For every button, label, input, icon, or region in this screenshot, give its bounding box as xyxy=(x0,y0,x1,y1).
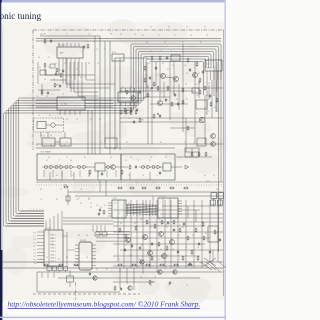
IF specks2 xyxy=(56,175,158,177)
svg-text:F9: F9 xyxy=(110,157,112,159)
BR extra parts2 xyxy=(125,222,211,254)
label cluster R701 xyxy=(40,34,44,36)
svg-text:K4: K4 xyxy=(110,34,112,36)
IC U703 block xyxy=(57,97,85,110)
svg-text:T8: T8 xyxy=(53,79,55,81)
memory box B xyxy=(211,193,224,207)
IC U704 pins xyxy=(121,88,135,106)
svg-text:F1: F1 xyxy=(90,203,92,205)
right half rail y88 xyxy=(120,87,223,89)
svg-text:T1: T1 xyxy=(66,44,68,46)
svg-text:C8: C8 xyxy=(62,94,64,96)
svg-text:L2: L2 xyxy=(172,93,174,95)
TL loop box xyxy=(40,70,46,75)
svg-text:K6: K6 xyxy=(214,107,216,109)
svg-text:L7: L7 xyxy=(178,235,180,237)
capacitor C720 xyxy=(135,165,137,169)
IC right feeds xyxy=(96,232,130,242)
TL box x50 xyxy=(50,64,55,68)
svg-text:R4: R4 xyxy=(130,255,132,257)
svg-text:T7: T7 xyxy=(58,160,60,162)
TL specks4 xyxy=(39,63,86,79)
mid cluster parts xyxy=(153,114,161,119)
TR extra vert c xyxy=(178,84,180,110)
svg-text:K5: K5 xyxy=(136,182,138,184)
resistor R803 xyxy=(154,224,156,229)
svg-text:R3: R3 xyxy=(162,63,164,65)
TR specks3 xyxy=(145,75,219,113)
TR vert x164 xyxy=(163,82,165,98)
svg-text:R6: R6 xyxy=(166,255,168,257)
rail y128 right xyxy=(170,127,195,129)
svg-text:K7: K7 xyxy=(200,42,202,44)
svg-text:R9: R9 xyxy=(86,41,88,43)
bottom rail 4 xyxy=(58,277,200,279)
row parts xyxy=(117,187,188,189)
TR chain x158 parts xyxy=(155,66,159,90)
svg-text:C1: C1 xyxy=(196,113,198,115)
wire drop x100 xyxy=(99,36,101,154)
svg-text:C3: C3 xyxy=(152,182,154,184)
capacitor C737 xyxy=(209,94,211,98)
svg-text:C9: C9 xyxy=(150,27,152,29)
left margin scan shadow xyxy=(2,25,4,302)
cluster boxes right of M2 xyxy=(93,225,107,236)
svg-text:T9: T9 xyxy=(64,63,66,65)
capacitor C801 xyxy=(124,248,126,252)
pad boxes row xyxy=(47,267,68,271)
IF chain wires 2 xyxy=(139,166,182,168)
svg-text:C2: C2 xyxy=(52,94,54,96)
svg-text:K9: K9 xyxy=(120,34,122,36)
svg-text:T7: T7 xyxy=(150,227,152,229)
pad drops xyxy=(49,271,66,273)
vert x205 xyxy=(204,95,206,144)
svg-text:T5: T5 xyxy=(60,189,62,191)
svg-text:onic tuning: onic tuning xyxy=(0,11,42,21)
transistor Q801 xyxy=(126,238,131,243)
dashed delay enclosure xyxy=(34,118,64,132)
IF module enclosure right xyxy=(121,154,175,180)
transistor Q701 xyxy=(111,165,116,170)
dash-dot vertical x75 xyxy=(75,282,77,300)
block B2 bottom xyxy=(60,138,71,146)
svg-text:L6: L6 xyxy=(178,259,180,261)
transistor Q904 xyxy=(128,286,132,290)
IC M2 rounded block xyxy=(79,242,92,270)
BR specks3 xyxy=(118,213,217,249)
svg-text:K8: K8 xyxy=(76,259,78,261)
TR vert x214 xyxy=(213,66,215,96)
ribbon bundle ticks xyxy=(128,204,156,216)
wrap bus line 4 xyxy=(11,52,214,219)
svg-text:T7: T7 xyxy=(208,111,210,113)
delay circle part xyxy=(46,123,64,127)
ribbon bundle xyxy=(126,204,158,215)
svg-text:P6: P6 xyxy=(34,249,36,251)
TL part x56 xyxy=(55,72,62,77)
svg-text:F1: F1 xyxy=(37,96,39,98)
rail y118 right xyxy=(120,117,223,119)
wires drop from delay xyxy=(41,132,65,138)
row rail 1 xyxy=(68,191,223,193)
BR rail y256 xyxy=(113,255,200,257)
svg-text:L2: L2 xyxy=(217,111,219,113)
TR extra vert d xyxy=(198,80,200,98)
svg-text:5: 5 xyxy=(33,209,34,211)
svg-text:F2: F2 xyxy=(80,203,82,205)
TR rail y97 xyxy=(144,96,170,98)
svg-text:K6: K6 xyxy=(38,57,40,59)
TR extra vert b xyxy=(173,62,175,95)
svg-text:R4: R4 xyxy=(192,235,194,237)
capacitor C802 xyxy=(139,246,141,250)
U701 bottom drops xyxy=(63,62,79,92)
node rail y80 xyxy=(50,79,66,81)
svg-text:F1: F1 xyxy=(204,27,206,29)
nested corner trace E xyxy=(82,62,98,100)
wrap bus line 8 xyxy=(150,62,204,96)
wire drop x105 xyxy=(104,41,106,144)
svg-text:R9: R9 xyxy=(160,51,162,53)
speck labels RU xyxy=(150,51,197,91)
svg-text:L4: L4 xyxy=(184,65,186,67)
page right border xyxy=(224,0,226,320)
resistor R805 xyxy=(187,236,189,241)
BR rail y222 xyxy=(113,221,223,223)
svg-text:T7: T7 xyxy=(166,227,168,229)
svg-text:R8: R8 xyxy=(182,227,184,229)
svg-text:L2: L2 xyxy=(215,233,217,235)
cap C1101 xyxy=(89,272,91,276)
bus rail top B xyxy=(36,40,221,42)
resistor R801 xyxy=(119,228,121,233)
row y182 specks xyxy=(40,189,82,201)
page top border strip xyxy=(0,0,226,2)
component cluster below IC xyxy=(56,68,64,73)
enclosure vline B xyxy=(119,58,121,150)
capacitor C731 xyxy=(166,56,168,60)
wire drop x88 mid xyxy=(87,110,89,154)
svg-text:5: 5 xyxy=(39,209,40,211)
amp A7 xyxy=(185,165,189,169)
resistor R720 xyxy=(129,165,131,170)
nested corner trace C xyxy=(74,62,98,92)
crystal X1101 xyxy=(67,270,74,287)
svg-text:T9: T9 xyxy=(204,107,206,109)
svg-text:T4: T4 xyxy=(176,99,178,101)
svg-text:F4: F4 xyxy=(179,157,181,159)
svg-text:P9: P9 xyxy=(34,260,36,262)
nested corner trace A xyxy=(66,58,98,84)
row rail 2 xyxy=(75,195,223,197)
svg-text:TUNER: TUNER xyxy=(206,68,213,70)
IC M2 pins xyxy=(75,245,96,265)
bottom specks2 xyxy=(46,257,188,287)
rail y145 specks xyxy=(42,142,186,144)
memory box A xyxy=(211,193,217,207)
svg-text:R3: R3 xyxy=(58,70,60,72)
BR rail y250 xyxy=(120,249,223,251)
IF inner stubs xyxy=(44,170,116,177)
svg-text:T3: T3 xyxy=(186,27,188,29)
svg-text:F1: F1 xyxy=(46,257,48,259)
BL cluster above IC xyxy=(96,205,106,216)
mid cluster parts2 xyxy=(133,118,144,124)
bottom rail 2 xyxy=(3,267,223,269)
svg-text:C9: C9 xyxy=(84,77,86,79)
TR extra vert a xyxy=(146,62,148,88)
svg-text:R6: R6 xyxy=(88,63,90,65)
svg-text:T3: T3 xyxy=(186,99,188,101)
svg-text:R6: R6 xyxy=(55,63,57,65)
wrap bus line 7 xyxy=(19,59,207,211)
svg-text:C8: C8 xyxy=(88,199,90,201)
amp A2 xyxy=(60,165,64,169)
svg-text:R8: R8 xyxy=(44,79,46,81)
svg-text:T9: T9 xyxy=(150,157,152,159)
svg-text:R6: R6 xyxy=(93,41,95,43)
svg-text:T6: T6 xyxy=(196,95,198,97)
TL specks3 xyxy=(38,49,106,81)
BR rail y238 xyxy=(118,237,210,239)
pin table box xyxy=(185,148,199,157)
resistor R802 xyxy=(135,226,137,231)
test point marks xyxy=(151,87,159,115)
svg-text:T701 IF AMP: T701 IF AMP xyxy=(40,151,52,154)
BR rail y232 xyxy=(113,231,223,233)
caption underline xyxy=(8,308,201,310)
svg-text:R9: R9 xyxy=(125,160,127,162)
svg-text:T6: T6 xyxy=(100,207,102,209)
svg-text:T9: T9 xyxy=(76,69,78,71)
TR specks2 xyxy=(148,63,216,109)
svg-text:F7: F7 xyxy=(205,113,207,115)
top specks row TR xyxy=(142,35,208,44)
svg-text:C9: C9 xyxy=(36,145,38,147)
svg-text:IC1102: IC1102 xyxy=(80,240,86,242)
resistor R742 xyxy=(191,152,193,157)
rails right of IC M1 xyxy=(63,218,113,224)
svg-text:C3: C3 xyxy=(148,63,150,65)
right vertical bridge xyxy=(220,115,222,182)
svg-text:F8: F8 xyxy=(78,235,80,237)
nested corner trace D xyxy=(78,62,98,96)
svg-text:R4: R4 xyxy=(150,89,152,91)
bottom comp row xyxy=(43,264,192,266)
bottom slant extra xyxy=(210,262,220,272)
filter block xyxy=(95,163,105,171)
small cluster x88 xyxy=(83,44,89,49)
transistor Q703 xyxy=(174,77,179,82)
enclosure vline A xyxy=(114,58,116,150)
transistor Q1101 xyxy=(93,276,97,280)
delay line block xyxy=(37,122,46,129)
transistor Q803 xyxy=(159,232,164,237)
page bottom border line xyxy=(0,317,226,319)
diode D1102 box xyxy=(66,196,70,201)
IC M1 inner text xyxy=(50,238,55,246)
svg-text:F3: F3 xyxy=(198,73,200,75)
svg-text:R3: R3 xyxy=(216,189,218,191)
resistor R702 xyxy=(44,63,46,68)
transistor Q901 xyxy=(140,260,144,264)
amp A1 xyxy=(50,165,54,169)
TR extra vert e xyxy=(216,62,218,92)
IC U701 pins xyxy=(59,43,79,62)
resistor R744 xyxy=(205,152,207,157)
bottom right rail y266 xyxy=(113,265,208,267)
svg-text:R2: R2 xyxy=(141,245,143,247)
svg-text:F8: F8 xyxy=(165,157,167,159)
BR rail y226 xyxy=(113,225,205,227)
svg-text:F3: F3 xyxy=(44,34,46,36)
svg-text:5: 5 xyxy=(42,209,43,211)
transistor Q902 xyxy=(158,270,162,274)
TR part i xyxy=(210,98,218,107)
svg-text:F1: F1 xyxy=(66,142,68,144)
svg-text:T1: T1 xyxy=(128,118,130,120)
svg-text:C4: C4 xyxy=(142,35,144,37)
block T704 xyxy=(197,138,206,146)
TL parts y90 xyxy=(41,90,49,95)
svg-text:T1: T1 xyxy=(43,136,45,138)
svg-text:K3: K3 xyxy=(146,42,148,44)
nested corner trace F xyxy=(86,62,95,80)
svg-text:K9: K9 xyxy=(204,175,206,177)
BR specks2 xyxy=(114,203,194,257)
svg-text:C8: C8 xyxy=(104,205,106,207)
IC U701 block xyxy=(57,47,83,58)
svg-text:L3: L3 xyxy=(158,219,160,221)
tuner block xyxy=(205,60,222,71)
svg-text:C9: C9 xyxy=(128,175,130,177)
svg-text:F3: F3 xyxy=(197,247,199,249)
svg-text:R3: R3 xyxy=(208,83,210,85)
block right mid xyxy=(196,100,207,109)
svg-text:F9: F9 xyxy=(50,145,52,147)
wrap bus line 1 xyxy=(4,44,222,226)
speck labels TL2 xyxy=(86,41,95,43)
svg-text:F3: F3 xyxy=(86,257,88,259)
dotted separator row xyxy=(36,184,223,186)
svg-text:T4: T4 xyxy=(66,34,68,36)
svg-text:F1: F1 xyxy=(168,27,170,29)
small box R col xyxy=(192,88,199,93)
amp A5 xyxy=(147,165,151,169)
svg-text:K1: K1 xyxy=(106,269,108,271)
svg-text:R4: R4 xyxy=(150,285,152,287)
left bus IC feed lines xyxy=(6,211,44,226)
svg-text:R8: R8 xyxy=(186,73,188,75)
mid rail y148 xyxy=(36,147,175,149)
IC U701 label xyxy=(59,45,66,47)
svg-text:F4: F4 xyxy=(56,175,58,177)
IC M1 pin rows xyxy=(34,232,45,265)
vert x148 xyxy=(147,85,149,144)
page left scan edge xyxy=(0,2,1,250)
BR rail y244 xyxy=(113,243,205,245)
capacitor C735 xyxy=(174,93,176,97)
nested corner trace B xyxy=(70,62,98,88)
svg-text:P8: P8 xyxy=(34,256,36,258)
svg-text:C5: C5 xyxy=(130,157,132,159)
BR rail y218 xyxy=(113,217,223,219)
svg-text:T2: T2 xyxy=(174,35,176,37)
module label xyxy=(40,151,52,154)
partial box right mid xyxy=(105,138,117,148)
svg-text:P5: P5 xyxy=(34,246,36,248)
svg-text:C8: C8 xyxy=(190,35,192,37)
svg-text:P3: P3 xyxy=(34,239,36,241)
IC U703 label xyxy=(61,104,68,106)
transistor Q707 xyxy=(211,134,216,139)
svg-text:IC 701: IC 701 xyxy=(59,45,66,47)
svg-text:T6: T6 xyxy=(40,199,42,201)
IC M1 internal rows xyxy=(51,234,57,263)
bottom specks xyxy=(40,259,180,279)
svg-text:K3: K3 xyxy=(58,44,60,46)
IF inner drops xyxy=(50,171,150,180)
bottom right slope wires xyxy=(200,262,216,270)
bottom mid verticals xyxy=(120,268,134,290)
bottom row parts xyxy=(114,280,171,291)
schematic frame left dashed xyxy=(32,30,34,150)
transistor Q903 xyxy=(173,270,177,274)
TL vline x42 low xyxy=(41,84,43,96)
svg-text:R9: R9 xyxy=(160,142,162,144)
svg-text:K1: K1 xyxy=(126,142,128,144)
svg-text:T8: T8 xyxy=(120,182,122,184)
svg-text:L2: L2 xyxy=(94,259,96,261)
svg-text:C5: C5 xyxy=(170,51,172,53)
svg-text:P1: P1 xyxy=(34,232,36,234)
bottom rail 1 xyxy=(3,261,223,263)
TR part f xyxy=(149,76,155,86)
transistor Q804 xyxy=(170,240,175,245)
svg-text:K8: K8 xyxy=(86,235,88,237)
wire B1-B2 xyxy=(55,141,60,143)
capacitor C701 xyxy=(50,39,52,43)
IC U701 inner label xyxy=(60,52,65,55)
TR vert x156 xyxy=(155,62,157,86)
right corner drop wires xyxy=(213,250,226,268)
TR chain x200 xyxy=(199,78,201,95)
svg-text:X701: X701 xyxy=(112,52,116,54)
svg-text:R12: R12 xyxy=(64,184,67,186)
TR resistor chain x145 xyxy=(144,66,146,83)
svg-text:F1: F1 xyxy=(145,75,147,77)
diode block D701 xyxy=(171,55,180,61)
svg-text:F2: F2 xyxy=(149,160,151,162)
svg-text:T9: T9 xyxy=(184,142,186,144)
svg-text:T7: T7 xyxy=(125,245,127,247)
resistor R736 xyxy=(182,100,184,105)
wire U701 bottom loop xyxy=(45,62,59,75)
diag wires corner xyxy=(204,258,216,266)
svg-text:IC704: IC704 xyxy=(120,98,125,100)
IC M2 label xyxy=(80,240,86,242)
resistor R738 xyxy=(204,86,206,91)
schematic right edge line xyxy=(222,30,224,296)
svg-text:R2: R2 xyxy=(141,120,143,122)
amp A3 xyxy=(70,165,74,169)
svg-text:R4: R4 xyxy=(150,51,152,53)
bottom parts y260 xyxy=(151,256,199,266)
ceramic block xyxy=(163,163,171,171)
bottom right box xyxy=(208,226,218,242)
node rail y75 xyxy=(45,74,95,76)
